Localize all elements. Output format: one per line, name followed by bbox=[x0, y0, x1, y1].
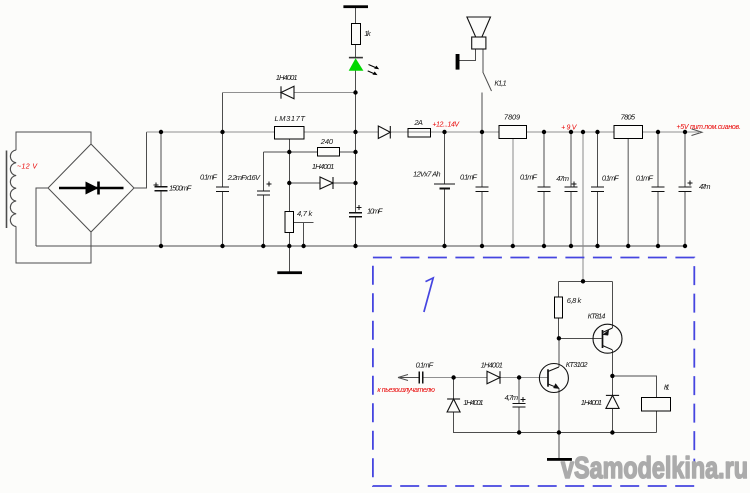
svg-text:4,7m: 4,7m bbox=[505, 393, 519, 402]
svg-text:2А: 2А bbox=[413, 118, 423, 127]
svg-text:К1: К1 bbox=[664, 383, 670, 392]
svg-text:1500mF: 1500mF bbox=[169, 184, 192, 193]
svg-text:+9V: +9V bbox=[561, 125, 578, 132]
svg-text:10mF: 10mF bbox=[367, 207, 383, 216]
svg-text:КТ3102: КТ3102 bbox=[566, 360, 589, 369]
svg-text:LM317T: LM317T bbox=[275, 114, 307, 123]
svg-text:6,8 k: 6,8 k bbox=[567, 296, 583, 305]
svg-text:0.1mF: 0.1mF bbox=[460, 172, 477, 181]
svg-text:1Н4001: 1Н4001 bbox=[481, 361, 503, 370]
svg-text:+12...14V: +12...14V bbox=[432, 122, 460, 129]
svg-text:0.1mF: 0.1mF bbox=[636, 173, 654, 182]
svg-text:0.1mF: 0.1mF bbox=[200, 173, 217, 182]
svg-text:7805: 7805 bbox=[621, 112, 636, 121]
svg-text:7809: 7809 bbox=[504, 112, 521, 121]
svg-text:1Н4001: 1Н4001 bbox=[581, 398, 602, 407]
svg-text:0.1mF: 0.1mF bbox=[416, 360, 434, 369]
svg-text:1Н4001: 1Н4001 bbox=[312, 162, 334, 171]
svg-text:~12 V: ~12 V bbox=[17, 163, 38, 170]
svg-text:2.2mFх16V: 2.2mFх16V bbox=[227, 173, 261, 182]
svg-text:КТ814: КТ814 bbox=[588, 312, 606, 321]
svg-text:0.1mF: 0.1mF bbox=[520, 172, 537, 181]
svg-text:1Н4001: 1Н4001 bbox=[276, 73, 298, 82]
svg-text:47m: 47m bbox=[556, 174, 569, 183]
svg-text:47m: 47m bbox=[699, 182, 711, 191]
svg-text:240: 240 bbox=[320, 137, 334, 146]
svg-text:+5V пит.пом.сианов.: +5V пит.пом.сианов. bbox=[676, 124, 741, 131]
svg-text:К1,1: К1,1 bbox=[494, 79, 506, 88]
svg-text:к пьезоизлучателю: к пьезоизлучателю bbox=[377, 387, 435, 394]
svg-text:vSamodelkina.ru: vSamodelkina.ru bbox=[561, 450, 748, 485]
svg-text:4,7 k: 4,7 k bbox=[297, 209, 313, 218]
svg-text:0.1mF: 0.1mF bbox=[602, 174, 619, 183]
svg-text:12Vх7 Ah: 12Vх7 Ah bbox=[413, 170, 441, 179]
svg-text:1Н4001: 1Н4001 bbox=[463, 398, 483, 407]
